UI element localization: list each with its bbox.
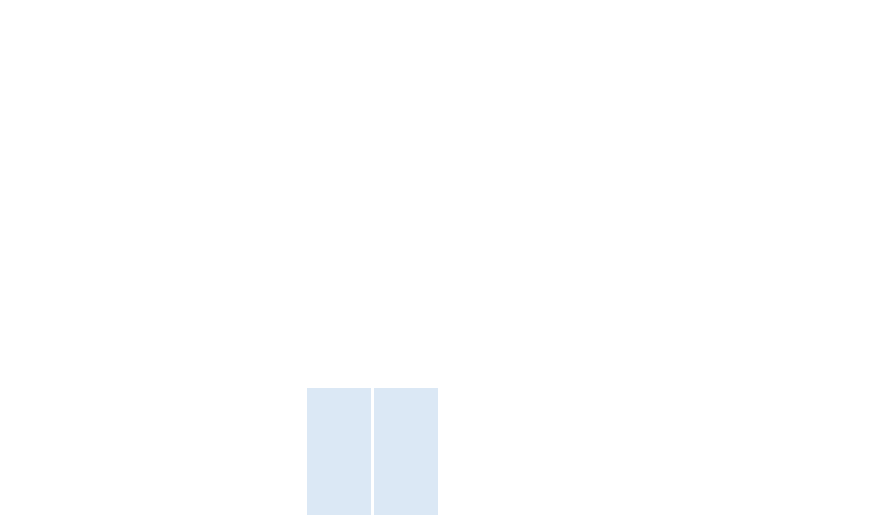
- PLL1 DIVN/fracn panel: [307, 388, 371, 515]
- PLL1 DIVP/DIVQ/DIVR panel: [374, 388, 438, 515]
